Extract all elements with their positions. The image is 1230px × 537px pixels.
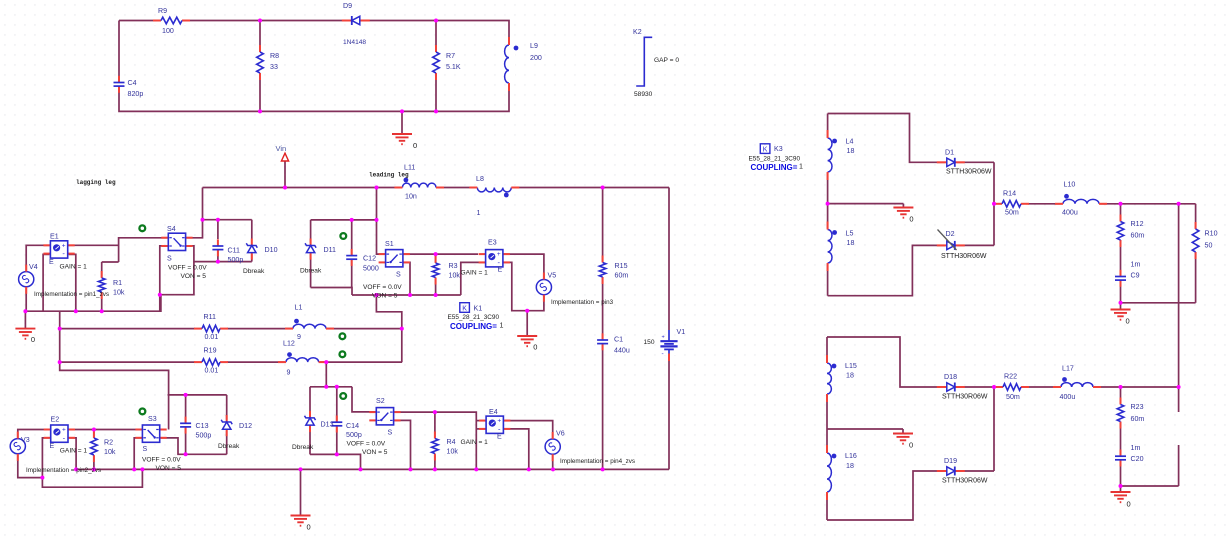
resistor R23 [1116, 404, 1125, 423]
resistor R11 [195, 324, 227, 333]
wire R8 branch [259, 21, 261, 112]
diode D11 [305, 243, 316, 254]
resistor R22 [996, 383, 1028, 392]
svg-text:0.01: 0.01 [205, 333, 219, 341]
svg-text:50: 50 [1205, 242, 1213, 250]
wire S1 snubber top [311, 219, 377, 221]
wire S2 out line [394, 412, 477, 469]
svg-text:R7: R7 [446, 52, 455, 60]
wire E1 in- drop [43, 254, 50, 311]
svg-text:60m: 60m [1131, 232, 1145, 240]
junction [100, 309, 104, 313]
junction [474, 467, 478, 471]
junction [58, 327, 62, 331]
diode D10 [246, 243, 257, 254]
svg-text:1: 1 [477, 209, 481, 217]
svg-text:Dbreak: Dbreak [300, 268, 322, 275]
junction [74, 309, 78, 313]
svg-text:0: 0 [31, 335, 35, 344]
resistor R8 [256, 51, 265, 74]
wire D12 branch [226, 395, 228, 454]
svg-text:VOFF = 0.0V: VOFF = 0.0V [347, 441, 386, 448]
source V5 [536, 280, 551, 295]
wire E2 out- drop [68, 438, 76, 470]
junction [158, 293, 162, 297]
capacitor C9 [1115, 276, 1127, 282]
junction [374, 293, 378, 297]
svg-text:+: + [662, 335, 665, 341]
capacitor C4 [113, 82, 125, 88]
svg-text:E3: E3 [488, 239, 497, 247]
svg-text:COUPLING=: COUPLING= [751, 163, 798, 172]
wire xfmr2 left [826, 337, 828, 520]
svg-text:V6: V6 [556, 430, 565, 438]
wire R12-C9 branch [1120, 204, 1122, 303]
svg-text:D11: D11 [324, 246, 337, 254]
wire L12 drop to S2 loop [325, 362, 327, 387]
wire output line lower [994, 386, 1179, 388]
svg-text:VON = 5: VON = 5 [362, 449, 388, 456]
svg-text:50m: 50m [1005, 209, 1019, 217]
svg-text:500p: 500p [228, 256, 244, 264]
svg-text:S2: S2 [376, 397, 385, 405]
wire sec centre tap [828, 203, 904, 205]
junction [140, 467, 144, 471]
svg-text:R8: R8 [270, 52, 279, 60]
wire snubber bottom (S1) [311, 288, 352, 296]
wire E2 out+ to S3 [68, 429, 142, 431]
marker green ring (mid1) [340, 333, 346, 339]
wire C20 gnd stem [1120, 486, 1122, 492]
junction [374, 293, 378, 297]
svg-text:lagging leg: lagging leg [76, 179, 116, 186]
wire S3 ctl- drop [134, 438, 142, 470]
svg-text:S3: S3 [148, 415, 157, 423]
wire C14 branch [336, 387, 338, 455]
coupling K1 [460, 303, 470, 313]
resistor R15 [598, 262, 607, 279]
battery V1 [659, 339, 679, 355]
diode D12 [221, 420, 232, 431]
junction [527, 467, 531, 471]
svg-text:58930: 58930 [634, 91, 653, 98]
wire return rail (lagging) [25, 295, 161, 312]
wire gate riser [119, 238, 169, 262]
svg-text:L15: L15 [845, 362, 857, 370]
svg-text:S: S [143, 445, 148, 453]
wire E4 out- drop [503, 429, 528, 470]
svg-text:K: K [462, 305, 467, 312]
wire E4 in+ stub [476, 420, 486, 422]
wire xfmr2 top [827, 337, 994, 387]
svg-text:STTH30R06W: STTH30R06W [941, 253, 987, 260]
wire E4 out+ to V6 [503, 421, 552, 439]
inductor L16 [821, 452, 829, 493]
junction [324, 385, 328, 389]
svg-text:18: 18 [846, 462, 854, 470]
ground 0 (sec lower) [893, 433, 913, 435]
svg-text:Implementation = pin1_zvs: Implementation = pin1_zvs [34, 291, 109, 298]
svg-text:L1: L1 [295, 304, 303, 312]
svg-text:1m: 1m [1131, 261, 1141, 269]
coupling K3 [760, 144, 770, 154]
junction [1119, 385, 1123, 389]
wire R1 jog [102, 261, 119, 263]
junction [992, 202, 996, 206]
svg-text:Dbreak: Dbreak [292, 444, 314, 451]
wire E2 in+ to V3 [18, 430, 51, 439]
wire C12 branch [351, 220, 353, 288]
wire center ground stem [300, 469, 302, 515]
wire E3 in- jog [461, 262, 486, 295]
marker green ring (S3) [140, 409, 146, 415]
junction [92, 467, 96, 471]
wire V4 ground stem [24, 311, 26, 328]
svg-text:E: E [497, 433, 502, 441]
svg-text:VON = 5: VON = 5 [181, 273, 207, 280]
svg-text:D2: D2 [946, 230, 955, 238]
svg-text:VOFF = 0.0V: VOFF = 0.0V [168, 265, 207, 272]
svg-text:VON = 5: VON = 5 [156, 465, 182, 472]
junction [359, 467, 363, 471]
svg-text:Vin: Vin [276, 144, 287, 153]
svg-text:1N4148: 1N4148 [343, 39, 366, 46]
junction [601, 467, 605, 471]
capacitor C12 [346, 255, 358, 261]
junction [1119, 484, 1123, 488]
svg-text:S: S [396, 271, 401, 279]
svg-text:S4: S4 [167, 225, 176, 233]
svg-text:STTH30R06W: STTH30R06W [946, 169, 992, 176]
svg-text:V3: V3 [21, 436, 30, 444]
svg-text:500p: 500p [346, 431, 362, 439]
junction [433, 467, 437, 471]
svg-text:E: E [498, 266, 503, 274]
svg-text:E4: E4 [489, 408, 498, 416]
svg-text:R11: R11 [204, 313, 217, 321]
svg-text:400u: 400u [1060, 393, 1076, 401]
wire E3 out+ to V5 [503, 254, 544, 279]
marker green ring (mid2) [340, 351, 346, 357]
junction [434, 109, 438, 113]
junction [216, 218, 220, 222]
svg-text:5000: 5000 [363, 265, 379, 273]
svg-text:820p: 820p [128, 90, 144, 98]
wire D10 bottom [251, 253, 253, 262]
wire rail descender [60, 311, 169, 429]
vcvs E1 [49, 240, 68, 259]
wire xfmr sec top [828, 114, 994, 163]
wire R4 net [434, 412, 436, 469]
svg-text:C11: C11 [228, 247, 241, 255]
svg-text:L9: L9 [530, 42, 538, 50]
junction [375, 186, 379, 190]
svg-text:leading leg: leading leg [369, 172, 409, 179]
junction [601, 186, 605, 190]
svg-text:GAP = 0: GAP = 0 [654, 57, 679, 64]
switch S2 [375, 407, 394, 426]
svg-text:R22: R22 [1004, 373, 1017, 381]
svg-text:E2: E2 [51, 416, 60, 424]
wire D11 branch [310, 220, 312, 288]
svg-text:D18: D18 [944, 373, 957, 381]
marker green ring (S2) [340, 393, 346, 399]
wire diode join vertical 2 [993, 387, 995, 471]
marker green ring (S4) [139, 225, 145, 231]
svg-text:C4: C4 [128, 79, 137, 87]
wire V6 bottom [552, 454, 554, 469]
svg-text:10n: 10n [405, 193, 417, 201]
svg-text:R19: R19 [204, 347, 217, 355]
svg-text:R23: R23 [1131, 403, 1144, 411]
vcvs E3 [485, 249, 504, 268]
wire E1 out- drop [68, 254, 76, 311]
wire output rail upper [1178, 204, 1180, 412]
junction [216, 260, 220, 264]
wire C20 bottom link [1121, 485, 1179, 487]
wire main top bus [203, 187, 670, 189]
svg-text:0: 0 [909, 441, 913, 450]
svg-text:STTH30R06W: STTH30R06W [942, 478, 988, 485]
wire R1 body net [101, 262, 103, 311]
svg-text:C9: C9 [1131, 272, 1140, 280]
svg-text:60m: 60m [615, 272, 629, 280]
source V4 [19, 272, 34, 287]
svg-text:200: 200 [530, 54, 542, 62]
svg-text:S: S [388, 429, 393, 437]
diode D13 [305, 415, 316, 426]
junction [132, 467, 136, 471]
svg-text:0: 0 [909, 215, 913, 224]
svg-text:COUPLING=: COUPLING= [450, 322, 497, 331]
inductor L15 [821, 362, 829, 395]
svg-text:L4: L4 [846, 138, 854, 146]
junction [58, 360, 62, 364]
wire S2 snubber top [310, 386, 352, 388]
svg-text:R2: R2 [104, 439, 113, 447]
wire S4 drain from bus [186, 188, 203, 238]
svg-text:0: 0 [307, 523, 311, 532]
svg-text:R1: R1 [113, 279, 122, 287]
inductor L5 [822, 229, 830, 265]
diode D9 [350, 15, 362, 26]
junction [409, 467, 413, 471]
svg-text:D13: D13 [321, 421, 334, 429]
resistor R2 [89, 437, 98, 456]
source V3 [10, 439, 25, 454]
wire D10 top [251, 220, 253, 239]
svg-text:D10: D10 [265, 246, 278, 254]
svg-text:D9: D9 [343, 2, 352, 10]
svg-text:C1: C1 [614, 336, 623, 344]
capacitor C20 [1115, 455, 1127, 461]
resistor R3 [431, 262, 440, 279]
resistor R4 [430, 438, 439, 455]
inductor L9 [508, 44, 516, 84]
junction [400, 327, 404, 331]
svg-text:0: 0 [413, 141, 417, 150]
svg-text:S1: S1 [385, 240, 394, 248]
wire E1 in+ to V4 [26, 245, 50, 271]
resistor R14 [995, 199, 1028, 208]
svg-text:Implementation = pin4_zvs: Implementation = pin4_zvs [560, 458, 635, 465]
switch S4 [167, 232, 186, 251]
wire ground stem top-left [401, 111, 403, 134]
svg-text:Dbreak: Dbreak [218, 443, 240, 450]
svg-text:V5: V5 [548, 272, 557, 280]
svg-text:L8: L8 [476, 175, 484, 183]
svg-text:0: 0 [1127, 500, 1131, 509]
junction [258, 109, 262, 113]
svg-text:D19: D19 [944, 457, 957, 465]
wire sec gnd stem [902, 204, 904, 208]
svg-text:L5: L5 [846, 230, 854, 238]
wire R2 net [93, 430, 95, 470]
svg-text:K1: K1 [474, 305, 483, 313]
resistor R12 [1116, 221, 1125, 242]
junction [350, 218, 354, 222]
svg-text:GAIN = 1: GAIN = 1 [461, 270, 489, 277]
wire top-left block outer loop [119, 21, 509, 112]
power arrow Vin [281, 153, 288, 161]
svg-text:VOFF = 0.0V: VOFF = 0.0V [363, 284, 402, 291]
resistor R9 [154, 16, 189, 25]
ground 0 (C20) [1111, 491, 1131, 493]
diode D1 [945, 157, 957, 168]
svg-text:-: - [662, 351, 664, 358]
svg-text:R10: R10 [1205, 230, 1218, 238]
wire R23-C20 branch [1120, 387, 1122, 486]
junction [324, 360, 328, 364]
svg-text:K3: K3 [774, 145, 783, 153]
capacitor C1 [597, 339, 609, 345]
wire V4 bottom [25, 287, 27, 311]
junction [184, 452, 188, 456]
wire E3 out- drop [503, 262, 544, 310]
wire S3 out to snubber [160, 438, 227, 454]
svg-text:Implementation = pin3: Implementation = pin3 [551, 299, 614, 306]
svg-text:Implementation = pin2_zvs: Implementation = pin2_zvs [26, 467, 101, 474]
svg-text:1m: 1m [1131, 444, 1141, 452]
svg-text:E55_28_21_3C90: E55_28_21_3C90 [749, 156, 801, 163]
inductor L8 [476, 186, 512, 194]
ground 0 (C9) [1111, 309, 1131, 311]
svg-text:9: 9 [297, 333, 301, 341]
junction [992, 385, 996, 389]
svg-text:C14: C14 [346, 422, 359, 430]
capacitor C13 [180, 422, 192, 428]
wire R15-C1 column [602, 188, 604, 470]
svg-text:E: E [50, 442, 55, 450]
svg-text:D1: D1 [945, 149, 954, 157]
junction [434, 252, 438, 256]
svg-text:10k: 10k [449, 272, 461, 280]
svg-text:R14: R14 [1003, 190, 1016, 198]
svg-text:L10: L10 [1064, 181, 1076, 189]
svg-text:33: 33 [270, 63, 278, 71]
marker green ring (S1) [340, 233, 346, 239]
svg-text:V1: V1 [677, 328, 686, 336]
wire diode join vertical [993, 162, 995, 245]
svg-text:60m: 60m [1131, 415, 1145, 423]
svg-text:18: 18 [847, 147, 855, 155]
junction [434, 293, 438, 297]
svg-text:R9: R9 [158, 7, 167, 15]
svg-text:R4: R4 [447, 438, 456, 446]
svg-text:L16: L16 [845, 452, 857, 460]
junction [375, 218, 379, 222]
svg-text:10k: 10k [447, 448, 459, 456]
svg-text:GAIN = 1: GAIN = 1 [60, 264, 88, 271]
svg-text:D12: D12 [239, 422, 252, 430]
junction [258, 19, 262, 23]
svg-text:440u: 440u [614, 347, 630, 355]
svg-text:18: 18 [847, 239, 855, 247]
svg-text:18: 18 [846, 372, 854, 380]
source V6 [545, 439, 560, 454]
wire S4 source to snubber [160, 262, 194, 295]
junction [74, 467, 78, 471]
svg-text:L17: L17 [1062, 365, 1074, 373]
diode D2 [945, 240, 957, 251]
svg-text:100: 100 [162, 27, 174, 35]
wire S3 snubber top [168, 394, 227, 396]
wire S2 snubber bottom [310, 454, 361, 469]
wire output rail lower [1178, 445, 1180, 486]
wire C9 gnd stem [1120, 303, 1122, 310]
junction [408, 293, 412, 297]
svg-text:0.01: 0.01 [205, 367, 219, 375]
junction [335, 452, 339, 456]
wire S1 S-pin drop [403, 262, 410, 295]
junction [1119, 202, 1123, 206]
svg-text:1: 1 [500, 322, 504, 330]
switch S3 [141, 424, 160, 443]
svg-text:GAIN = 1: GAIN = 1 [461, 439, 489, 446]
junction [201, 218, 205, 222]
wire S2 S-pin drop [394, 420, 411, 469]
svg-text:0: 0 [533, 343, 537, 352]
svg-text:10k: 10k [113, 289, 125, 297]
cursor line over D2 [938, 230, 957, 251]
svg-text:Dbreak: Dbreak [243, 268, 265, 275]
wire C11 bottom stub [217, 250, 219, 262]
junction [184, 393, 188, 397]
svg-text:STTH30R06W: STTH30R06W [942, 394, 988, 401]
svg-text:500p: 500p [196, 432, 212, 440]
svg-text:C20: C20 [1131, 455, 1144, 463]
svg-text:1: 1 [799, 163, 803, 171]
diode D19 [945, 466, 957, 477]
wire E1 out+ to S4 gate [68, 244, 119, 246]
svg-text:150: 150 [644, 339, 655, 346]
junction [433, 410, 437, 414]
svg-text:9: 9 [287, 369, 291, 377]
svg-text:C12: C12 [363, 255, 376, 263]
wire xfmr sec bottom [828, 245, 994, 295]
svg-text:V4: V4 [29, 263, 38, 271]
wire sec2 gnd stem [902, 429, 904, 434]
svg-text:S: S [167, 255, 172, 263]
resistor R19 [195, 358, 227, 367]
svg-text:GAIN = 1: GAIN = 1 [60, 448, 88, 455]
svg-text:L12: L12 [283, 340, 295, 348]
ground 0 (center) [291, 515, 311, 517]
svg-text:0: 0 [1126, 317, 1130, 326]
svg-text:E1: E1 [50, 233, 59, 241]
wire E4 in- stub [476, 428, 486, 430]
resistor R1 [97, 277, 106, 293]
